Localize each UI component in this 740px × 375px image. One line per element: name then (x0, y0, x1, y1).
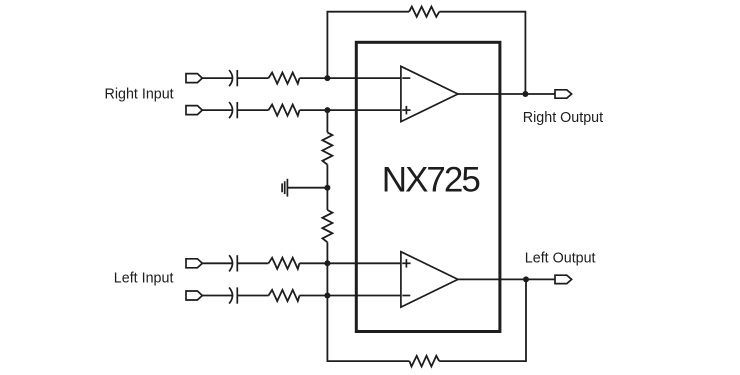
IC box U1 (356, 42, 500, 331)
wire U1a output to J5 (458, 93, 555, 95)
wire U1b output to J6 (458, 278, 555, 280)
output connector J6 (left output) (555, 275, 572, 283)
output connector J5 (right output) (555, 90, 572, 98)
node junction dot D (324, 260, 330, 266)
node junction dot C (right output node) (522, 91, 528, 97)
input connector J1 (right input top) (186, 74, 202, 83)
svg-text:Left Output: Left Output (525, 250, 596, 266)
input connector J4 (left input bottom) (186, 291, 202, 300)
resistor R2 (269, 105, 300, 116)
wire R1 to op-amp U1a inverting input (300, 77, 401, 79)
wire R7 to ground node (326, 165, 328, 210)
resistor R7 (bias upper, vertical) (322, 132, 332, 164)
wire R2 to op-amp U1a non-inverting input (300, 109, 401, 111)
wire C3 to R3 (237, 262, 268, 264)
wire bottom feedback left vertical (327, 296, 409, 362)
wire R3 to op-amp U1b non-inverting input (300, 262, 401, 264)
resistor R6 (left feedback) (409, 356, 439, 367)
node junction dot A (324, 75, 330, 81)
op-amp U1b (401, 252, 458, 307)
wire J2 to C2 (202, 109, 232, 111)
wire bottom feedback right vertical (439, 279, 526, 361)
wire C2 to R2 (237, 109, 268, 111)
wire node A to bias resistor R7 (326, 110, 328, 132)
op-amp U1a (401, 66, 458, 121)
ground (282, 179, 287, 197)
input connector J3 (left input top) (186, 259, 202, 268)
wire J3 to C3 (202, 262, 232, 264)
node junction dot E (324, 293, 330, 299)
capacitor C1 (229, 70, 237, 86)
resistor R8 (bias lower, vertical) (322, 210, 332, 242)
wire top feedback right vertical (439, 12, 525, 94)
svg-text:Left Input: Left Input (114, 270, 174, 286)
resistor R5 (right feedback) (409, 7, 439, 17)
input connector J2 (right input bottom) (186, 106, 202, 115)
wire ground node to ground symbol (288, 187, 327, 189)
svg-text:Right Output: Right Output (523, 110, 603, 126)
capacitor C2 (229, 102, 237, 118)
wire C4 to R4 (237, 295, 268, 297)
node junction dot F (left output node) (523, 276, 529, 282)
resistor R4 (269, 290, 300, 301)
capacitor C3 (229, 255, 237, 271)
wire J4 to C4 (202, 295, 232, 297)
svg-text:Right Input: Right Input (105, 86, 174, 102)
wire top feedback left vertical (327, 12, 409, 78)
node junction dot G (ground node) (324, 185, 330, 191)
svg-text:NX725: NX725 (382, 160, 480, 199)
wire R4 to op-amp U1b inverting input (300, 295, 401, 297)
node junction dot B (324, 107, 330, 113)
capacitor C4 (229, 287, 237, 303)
wire C1 to R1 (237, 77, 268, 79)
wire R8 to node D (326, 242, 328, 295)
wire J1 to C1 (202, 77, 232, 79)
resistor R1 (269, 73, 300, 84)
resistor R3 (269, 258, 300, 269)
